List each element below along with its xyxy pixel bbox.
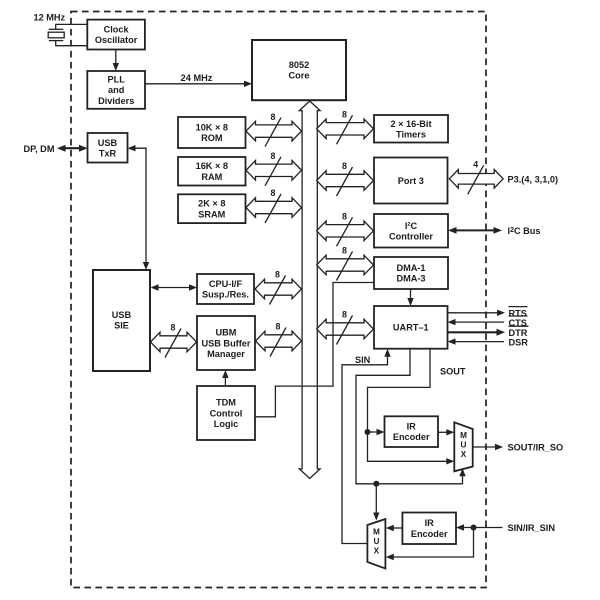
wire DMA to TDM Control Logic: [255, 283, 374, 417]
svg-text:8052: 8052: [289, 60, 309, 70]
label DP, DM: [24, 144, 55, 154]
junction SOUT node: [365, 429, 371, 435]
block 2K x 8 SRAM: [178, 194, 246, 223]
bus USB SIE to UBM (8): [151, 323, 197, 358]
block IR Encoder (bottom): [402, 513, 456, 545]
wire TDM Control Logic to UBM: [222, 370, 228, 386]
block DMA-1 DMA-3: [374, 257, 448, 289]
bus main bus to DMA (8): [317, 246, 374, 281]
svg-text:P3.(4, 3,1,0): P3.(4, 3,1,0): [508, 175, 559, 185]
wire Clock Oscillator to PLL: [113, 50, 119, 72]
wire DMA to UART-1: [407, 289, 413, 306]
svg-text:IR: IR: [407, 422, 417, 432]
block PLL and Dividers: [87, 71, 145, 109]
svg-text:DSR: DSR: [509, 337, 529, 347]
svg-text:M: M: [373, 528, 380, 537]
wire SOUT from UART-1 to IR encoder junction: [368, 349, 431, 432]
svg-text:TxR: TxR: [99, 148, 117, 158]
label DTR (overlined): [509, 326, 529, 338]
svg-text:UART–1: UART–1: [393, 323, 429, 333]
label DSR: [509, 337, 529, 347]
bus main bus to UART-1 (8): [317, 310, 374, 345]
svg-text:Clock: Clock: [104, 25, 130, 35]
svg-text:SRAM: SRAM: [198, 209, 225, 219]
svg-text:8: 8: [271, 112, 276, 122]
label SOUT/IR_SO: [508, 443, 564, 453]
bus RAM to main bus (8): [246, 151, 302, 186]
wire USB SIE to USB TxR: [128, 145, 150, 270]
svg-text:Timers: Timers: [396, 129, 426, 139]
svg-text:X: X: [374, 547, 380, 556]
junction SIN/IR_SIN node: [471, 525, 477, 531]
svg-text:USB Buffer: USB Buffer: [201, 338, 250, 348]
label SOUT: [440, 367, 466, 377]
svg-text:RAM: RAM: [201, 172, 222, 182]
svg-text:8: 8: [271, 151, 276, 161]
svg-text:16K × 8: 16K × 8: [196, 161, 228, 171]
svg-text:8: 8: [271, 188, 276, 198]
block I2C Controller: [374, 214, 448, 248]
label SIN: [355, 355, 371, 365]
wire UART select to mux select rail: [356, 349, 463, 484]
bus main bus to Timers (8): [317, 110, 374, 145]
block UART-1: [374, 306, 448, 349]
svg-text:Core: Core: [289, 71, 310, 81]
block 16K x 8 RAM: [178, 157, 246, 186]
svg-text:ROM: ROM: [201, 133, 223, 143]
label CTS (overlined): [509, 316, 528, 328]
svg-text:Logic: Logic: [214, 419, 239, 429]
wire junction to IR Encoder 1: [368, 429, 385, 435]
bus UBM to main bus (8): [256, 322, 302, 357]
label I2C Bus: [508, 226, 541, 236]
svg-text:IR: IR: [425, 518, 435, 528]
svg-text:Controller: Controller: [389, 231, 433, 241]
svg-text:U: U: [373, 537, 379, 546]
wire SIN from IR mux to UART-1: [342, 349, 391, 544]
svg-text:Encoder: Encoder: [411, 529, 448, 539]
svg-text:8: 8: [342, 161, 347, 171]
block CPU-I/F Susp./Res.: [197, 274, 254, 304]
wire DSR input: [448, 338, 505, 344]
svg-text:X: X: [461, 450, 467, 459]
svg-text:8: 8: [276, 322, 281, 332]
svg-text:2 × 16-Bit: 2 × 16-Bit: [390, 119, 431, 129]
chip boundary (dashed border): [71, 12, 486, 588]
block TDM Control Logic: [197, 386, 255, 440]
svg-text:2K × 8: 2K × 8: [198, 199, 225, 209]
svg-text:SIE: SIE: [114, 321, 129, 331]
svg-text:10K × 8: 10K × 8: [196, 123, 228, 133]
svg-text:USB: USB: [98, 138, 118, 148]
svg-text:PLL: PLL: [108, 75, 126, 85]
svg-text:TDM: TDM: [216, 398, 236, 408]
mux MUX 1 (output): [454, 422, 472, 471]
wire USB SIE to CPU-I/F (bidirectional): [151, 284, 198, 290]
wire DTR output (thick): [448, 329, 506, 336]
svg-text:8: 8: [342, 110, 347, 120]
svg-text:USB: USB: [112, 310, 132, 320]
wire I2C bus (bidirectional): [448, 227, 502, 234]
block 10K x 8 ROM: [178, 117, 246, 148]
svg-text:Susp./Res.: Susp./Res.: [202, 290, 249, 300]
svg-text:M: M: [460, 431, 467, 440]
svg-text:Control: Control: [210, 408, 243, 418]
block 2 x 16-Bit Timers: [374, 115, 448, 143]
crystal (12 MHz): [48, 24, 64, 47]
block UBM USB Buffer Manager: [197, 316, 255, 370]
svg-text:SOUT: SOUT: [440, 367, 466, 377]
wire RTS output: [448, 310, 506, 316]
wire IR Encoder 1 to MUX 1: [438, 429, 454, 435]
svg-text:SIN: SIN: [355, 355, 371, 365]
svg-text:8: 8: [342, 246, 347, 256]
svg-text:DMA-3: DMA-3: [396, 274, 425, 284]
svg-text:4: 4: [473, 160, 478, 170]
wire crystal top lead to Clock Oscillator: [56, 23, 88, 25]
svg-text:Encoder: Encoder: [393, 432, 430, 442]
block IR Encoder (top): [385, 416, 439, 447]
mux MUX 2 (input): [367, 519, 385, 569]
svg-text:8: 8: [342, 212, 347, 222]
wire MUX 1 output SOUT/IR_SO: [473, 444, 503, 450]
svg-text:Dividers: Dividers: [98, 96, 134, 106]
svg-text:I²C: I²C: [405, 221, 418, 231]
svg-text:SOUT/IR_SO: SOUT/IR_SO: [508, 443, 564, 453]
svg-text:DMA-1: DMA-1: [396, 263, 425, 273]
block 8052 Core: [252, 40, 346, 100]
block Port 3: [374, 158, 448, 204]
wire SIN/IR_SIN bypass to MUX 2 lower input: [386, 528, 474, 561]
svg-text:8: 8: [275, 270, 280, 280]
svg-text:CPU-I/F: CPU-I/F: [209, 279, 243, 289]
junction select rail node: [373, 481, 379, 487]
svg-text:24 MHz: 24 MHz: [181, 73, 213, 83]
svg-text:DP, DM: DP, DM: [24, 144, 55, 154]
wire MUX 2 select (arrow down): [373, 484, 379, 521]
svg-text:and: and: [108, 85, 124, 95]
block Clock Oscillator: [87, 20, 145, 50]
wire CTS input: [448, 319, 505, 325]
bus ROM to main bus (8): [246, 112, 302, 147]
bus SRAM to main bus (8): [246, 188, 302, 223]
svg-text:8: 8: [171, 323, 176, 333]
wire MUX 1 select (arrow up): [459, 468, 465, 484]
svg-text:UBM: UBM: [216, 328, 237, 338]
svg-text:12 MHz: 12 MHz: [34, 13, 66, 23]
label 24 MHz: [181, 73, 213, 83]
bus Port 3 to P3 pins (4): [449, 160, 503, 195]
label RTS (overlined): [509, 307, 528, 319]
bus CPU-I/F to main bus (8): [255, 270, 302, 305]
label 12 MHz: [34, 13, 66, 23]
bus main bus to Port 3 (8): [317, 161, 374, 196]
wire IR Encoder 2 to MUX 2: [386, 525, 403, 531]
svg-text:Port 3: Port 3: [398, 176, 424, 186]
svg-text:Oscillator: Oscillator: [95, 35, 138, 45]
block USB TxR: [88, 133, 128, 163]
wire crystal bottom lead to Clock Oscillator: [56, 45, 88, 47]
wire SOUT bypass to MUX 1 lower input: [368, 432, 455, 465]
label P3.(4, 3,1,0): [508, 175, 559, 185]
block USB SIE: [93, 270, 150, 371]
svg-text:SIN/IR_SIN: SIN/IR_SIN: [508, 523, 556, 533]
wire 24 MHz PLL to 8052 Core: [145, 81, 252, 87]
label SIN/IR_SIN: [508, 523, 556, 533]
svg-text:U: U: [461, 441, 467, 450]
bus main bus to I2C Controller (8): [317, 212, 374, 247]
svg-text:Manager: Manager: [207, 349, 245, 359]
svg-text:8: 8: [342, 310, 347, 320]
wire SIN/IR_SIN input: [456, 524, 503, 530]
wire DP/DM to USB TxR (bidirectional): [57, 145, 88, 152]
main data bus (vertical): [299, 101, 320, 479]
